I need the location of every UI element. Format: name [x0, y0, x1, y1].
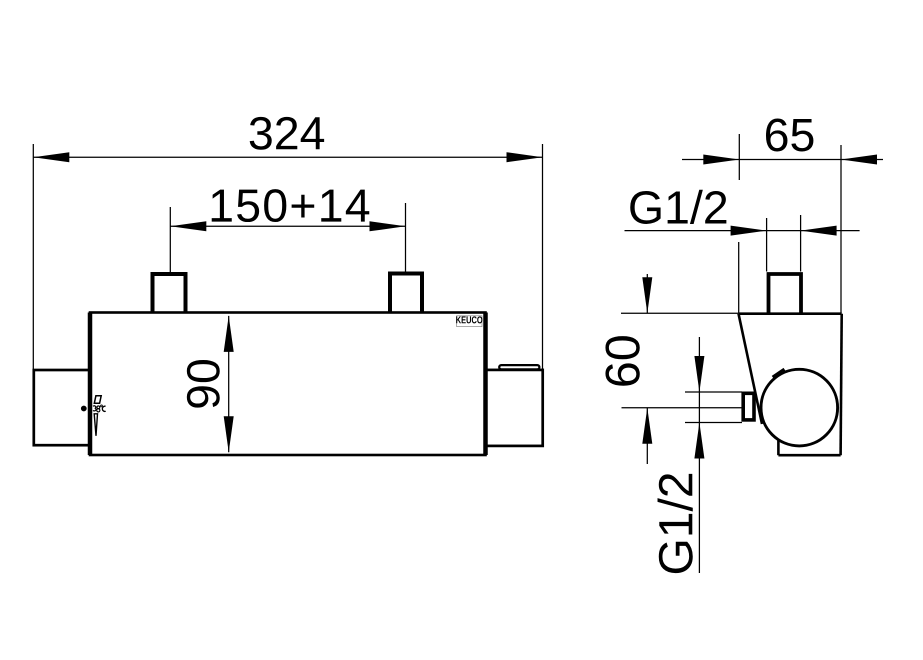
dim 60: center reference line: [622, 407, 742, 409]
dim 65: dimension line: [682, 159, 883, 161]
dim 90: top arrow: [224, 316, 234, 352]
dim 65: right arrow: [841, 155, 877, 165]
KEUCO logo frame: [457, 316, 482, 327]
dim G1/2 top: right arrow: [801, 226, 837, 236]
dim 60: bottom arrow: [642, 408, 652, 444]
dim 65: label: [766, 119, 813, 152]
38°C marker wedge: [94, 414, 97, 436]
inlet pipe (side view): [769, 274, 802, 314]
dim 65: left arrow: [703, 155, 739, 165]
dim G1/2 top: right extension: [800, 215, 802, 272]
dim G1/2 bottom: label: [658, 474, 693, 573]
dim 60: bottom stub: [646, 408, 648, 464]
handle tab: [774, 370, 787, 382]
dim 90: bottom arrow: [224, 416, 234, 452]
dim 60: top stub: [646, 274, 648, 313]
handle knob circle: [761, 369, 838, 446]
side body top edge: [739, 312, 842, 315]
dim 90: dimension line: [228, 316, 230, 452]
side body right edge: [841, 314, 842, 456]
dim 65: left extension (lower segment): [738, 242, 740, 314]
dim 324: right arrow: [507, 152, 543, 162]
38°C marker quad: [94, 396, 101, 404]
dim 60: label: [605, 336, 639, 386]
dim 60: top reference line: [621, 312, 738, 314]
body right thick edge: [483, 313, 488, 456]
dim 150+14: dimension line: [170, 225, 405, 227]
dim G1/2 bottom: upper arrow: [694, 356, 704, 392]
dim 150+14: left extension line: [169, 207, 171, 272]
dim 324: label: [250, 117, 324, 150]
dim 90: label: [187, 360, 220, 408]
dim 65: right extension line: [840, 145, 842, 313]
38°C marker text: [93, 405, 106, 412]
inlet pipe right (front view): [390, 274, 422, 314]
flow cap (right end, front view): [486, 370, 543, 446]
dim G1/2 bottom: upper reference line: [685, 391, 742, 393]
inlet pipe left (front view): [153, 274, 186, 313]
side body bottom edge: [778, 454, 840, 457]
dim 324: right extension line: [542, 144, 544, 369]
dim 65: left extension (upper segment): [738, 134, 740, 180]
body left thick edge: [88, 313, 93, 456]
38°C safety-stop dot: [81, 406, 87, 412]
dim G1/2 top: dimension line: [625, 230, 860, 232]
dim 60: top arrow: [642, 277, 652, 313]
dim 324: dimension line: [33, 156, 542, 158]
outlet pipe (side view): [743, 393, 754, 420]
side body foot left edge: [777, 434, 780, 455]
dim 150+14: right arrow: [370, 221, 406, 231]
dim 324: left arrow: [33, 152, 69, 162]
dim G1/2 bottom: lower arrow: [694, 423, 704, 459]
side body slant edge: [739, 314, 763, 424]
thermostat body (front view): [90, 313, 486, 456]
dim 150+14: left arrow: [170, 221, 206, 231]
dim 150+14: label: [212, 189, 370, 222]
dim 324: left extension line: [32, 144, 34, 370]
dim G1/2 top: left extension: [766, 218, 768, 272]
dim 150+14: right extension line: [405, 203, 407, 272]
dim G1/2 bottom: lower reference line: [685, 422, 742, 424]
dim G1/2 top: left arrow: [731, 226, 767, 236]
temperature cap (left end, front view): [34, 370, 90, 445]
dim G1/2 top: label: [630, 190, 726, 224]
KEUCO logo: [456, 316, 482, 323]
dim G1/2 bottom: vertical line: [698, 337, 700, 573]
flow handle lip (right cap top): [499, 365, 539, 369]
